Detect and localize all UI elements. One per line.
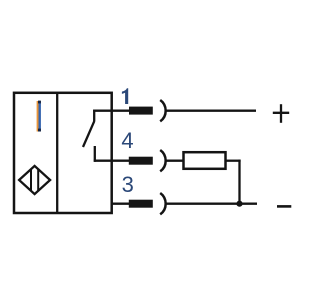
plug arc pin 4: [160, 150, 165, 171]
wire load branch vertical: [238, 160, 240, 204]
sensing face bar (orange stripe): [37, 101, 39, 132]
sensing face bar (blue stripe): [39, 101, 41, 132]
wire pin4 row to load: [166, 160, 184, 162]
wire pin1 row from switch to pin: [93, 110, 129, 112]
pin 3 connector block: [129, 200, 153, 208]
pin 1 connector block: [129, 107, 153, 115]
wire pin1 row to plus: [166, 110, 256, 112]
wire pin3 row from body to pin: [111, 203, 130, 205]
sensing face bar dark caps: [38, 101, 41, 104]
load resistor: [184, 152, 226, 169]
plug arc pin 3: [160, 193, 165, 214]
svg-text:4: 4: [121, 128, 133, 153]
switch top terminal stub: [93, 110, 95, 122]
svg-text:3: 3: [122, 172, 134, 197]
sensor body divider: [56, 93, 58, 213]
junction dot: [236, 201, 242, 207]
wire pin3 row to minus: [166, 203, 257, 205]
label pin 1: [122, 88, 128, 104]
sensor body outline: [14, 93, 112, 213]
proximity sensor diamond symbol: [19, 166, 50, 194]
diamond inner line left: [30, 169, 32, 192]
switch bottom terminal stub: [94, 146, 96, 162]
wire from load to corner: [226, 160, 241, 162]
diamond inner line right: [37, 169, 39, 192]
switch blade (open NO contact): [83, 121, 94, 147]
plus terminal: [273, 104, 289, 123]
plug arc pin 1: [160, 100, 165, 121]
minus terminal: [277, 205, 291, 208]
pin 4 connector block: [129, 157, 153, 165]
wire pin4 row from switch to pin: [94, 160, 130, 162]
